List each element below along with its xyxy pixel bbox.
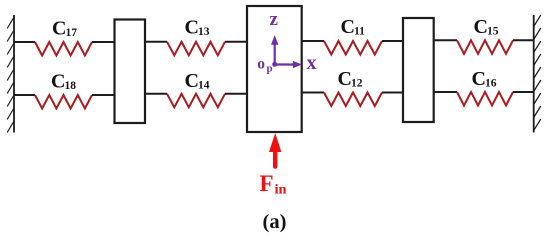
label C16 <box>472 68 497 90</box>
wall left <box>7 15 14 133</box>
svg-text:12: 12 <box>351 78 363 90</box>
label C11 <box>341 16 366 38</box>
svg-text:(a): (a) <box>263 211 287 233</box>
svg-text:F: F <box>260 171 274 196</box>
svg-text:14: 14 <box>198 80 210 92</box>
wall right <box>534 15 541 133</box>
svg-text:C: C <box>185 17 199 39</box>
spring C11 <box>302 41 403 55</box>
label C18 <box>51 71 76 93</box>
svg-text:18: 18 <box>65 80 77 92</box>
svg-text:C: C <box>185 70 199 92</box>
spring C12 <box>302 93 403 107</box>
mass right <box>403 18 434 122</box>
spring C18 <box>14 95 115 109</box>
label C15 <box>474 16 499 38</box>
svg-text:15: 15 <box>487 26 499 38</box>
spring C17 <box>14 42 115 56</box>
label C12 <box>338 68 363 90</box>
svg-text:16: 16 <box>485 78 497 90</box>
mass central <box>247 6 302 132</box>
spring C13 <box>145 42 247 56</box>
label C13 <box>185 17 210 39</box>
label C17 <box>52 18 77 40</box>
svg-text:C: C <box>472 68 486 90</box>
spring C14 <box>145 94 247 108</box>
node Op origin <box>257 56 277 75</box>
svg-text:C: C <box>341 16 355 38</box>
axis x <box>275 52 317 74</box>
svg-text:C: C <box>52 18 66 40</box>
svg-text:11: 11 <box>354 26 365 38</box>
svg-text:in: in <box>275 183 287 198</box>
svg-text:C: C <box>474 16 488 38</box>
spring C16 <box>434 92 534 106</box>
label Fin <box>260 171 287 198</box>
label (a) <box>263 211 287 233</box>
mass left <box>115 20 146 124</box>
spring C15 <box>434 40 534 54</box>
force Fin arrow <box>269 133 281 167</box>
svg-text:C: C <box>51 71 65 93</box>
svg-text:z: z <box>270 9 279 30</box>
label C14 <box>185 70 210 92</box>
svg-text:o: o <box>257 56 265 73</box>
axis z <box>270 9 279 64</box>
svg-text:C: C <box>338 68 352 90</box>
svg-text:13: 13 <box>198 26 210 38</box>
svg-text:x: x <box>307 52 317 74</box>
svg-text:17: 17 <box>66 27 78 39</box>
svg-text:p: p <box>267 63 273 75</box>
